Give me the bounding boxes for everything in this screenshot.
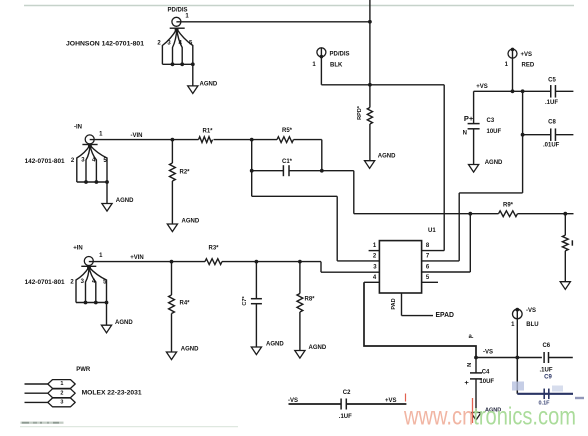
ground AGND C4	[471, 413, 481, 421]
connector P1 MOLEX pin 1	[48, 380, 75, 389]
svg-text:C5: C5	[548, 77, 556, 83]
-VS net label	[483, 349, 493, 355]
svg-text:R1*: R1*	[202, 128, 213, 134]
node PD/DIS junction	[368, 20, 372, 24]
svg-text:C3: C3	[487, 118, 495, 124]
-VS label C2	[288, 398, 298, 404]
op-amp U1 body	[379, 241, 421, 293]
wire J1 shield to ground	[192, 64, 194, 86]
ground AGND J4	[101, 325, 111, 333]
C3 value label	[487, 129, 502, 135]
resistor R9*	[499, 211, 518, 217]
ground AGND J1	[188, 86, 198, 94]
+IN label	[73, 246, 83, 252]
junction J1 shield b	[180, 62, 184, 66]
node A junction	[250, 138, 254, 142]
svg-text:a.: a.	[468, 334, 473, 340]
wire R5 corner down	[321, 140, 323, 171]
wire J3 shield to ground	[106, 182, 108, 204]
svg-text:N: N	[467, 363, 473, 367]
svg-text:.01UF: .01UF	[543, 142, 560, 148]
AGND label C4	[485, 408, 501, 414]
J2 pin 1 label	[312, 62, 316, 68]
U1 pin 5 number	[426, 275, 430, 281]
capacitor C8	[551, 128, 556, 141]
svg-text:AGND: AGND	[200, 81, 218, 87]
capacitor C9 wire	[517, 393, 573, 395]
junction J1 shield c	[191, 62, 195, 66]
U1 pin 1 stub	[369, 250, 380, 252]
svg-text:AGND: AGND	[266, 342, 284, 348]
svg-text:AGND: AGND	[116, 198, 134, 204]
connector J4 +IN (JOHNSON 142-0701-801)	[76, 257, 107, 303]
junction pin 6 tee	[468, 212, 472, 216]
AGND label R2	[182, 219, 200, 225]
svg-text:PD/DIS: PD/DIS	[330, 51, 350, 57]
junction -VS left	[474, 356, 478, 360]
junction J3 shield c	[105, 180, 109, 184]
R2* label	[180, 169, 191, 175]
J4 pin 1 label	[99, 253, 103, 259]
J1 pin 1 label	[185, 14, 189, 20]
C9 smudge b	[552, 386, 563, 392]
resistor R1*	[172, 137, 212, 143]
C5 value label	[545, 100, 558, 106]
wire +VS rail	[474, 90, 551, 92]
P1 pin 3 number	[60, 400, 63, 406]
wire pin 6 riser	[469, 214, 471, 272]
svg-text:P+: P+	[464, 114, 474, 123]
svg-text:R9*: R9*	[503, 203, 514, 209]
AGND label C7	[266, 342, 284, 348]
wire node A vertical	[251, 140, 253, 197]
J6 -VS label	[526, 308, 536, 314]
J3 pin 3 label	[81, 157, 85, 163]
P1 pin 1 number	[60, 381, 63, 387]
svg-text:R3*: R3*	[208, 246, 219, 252]
connector J6 -VS BLU	[513, 308, 523, 358]
svg-text:10UF: 10UF	[487, 129, 502, 135]
svg-text:142-0701-801: 142-0701-801	[25, 280, 66, 286]
C2 value label	[339, 414, 352, 420]
-VIN net label	[131, 133, 143, 139]
connector P1 MOLEX pin 2	[48, 389, 75, 398]
R9* label	[503, 203, 514, 209]
AGND label R8	[309, 345, 327, 351]
resistor R3*	[205, 259, 222, 265]
+VS net label	[476, 84, 488, 90]
svg-text:R2*: R2*	[180, 169, 191, 175]
C4 P+ mark	[464, 381, 471, 385]
C1* label	[282, 159, 293, 165]
capacitor C9 plates	[544, 389, 549, 400]
junction R load tee	[563, 212, 567, 216]
MOLEX part number label	[82, 390, 143, 396]
capacitor C7*	[251, 299, 262, 304]
resistor R2*	[170, 163, 176, 181]
AGND label C3	[485, 160, 503, 166]
U1 pin 8 number	[426, 243, 430, 249]
wire R1 right	[214, 139, 252, 141]
junction J3 shield a	[84, 180, 88, 184]
wire R load bottom	[564, 251, 566, 282]
C8 value label	[543, 142, 560, 148]
junction RPD top	[368, 83, 372, 87]
junction R8 top	[298, 260, 302, 264]
ground AGND C3	[469, 165, 479, 173]
svg-text:+VS: +VS	[521, 52, 533, 58]
wire PD/DIS pin1 horizontal	[176, 21, 370, 23]
wire C5 right	[556, 90, 574, 92]
J3 pin 2 label	[71, 158, 75, 164]
ground AGND RPD	[365, 161, 375, 169]
AGND label R4	[181, 347, 199, 353]
U1 reference label	[428, 228, 436, 234]
svg-text:C2: C2	[343, 390, 351, 396]
svg-text:RPD*: RPD*	[357, 105, 363, 120]
svg-text:U1: U1	[428, 228, 436, 234]
wire node A to pin2 horizontal	[252, 195, 338, 197]
svg-text:C9: C9	[544, 374, 552, 380]
watermark artifact red line b	[472, 398, 474, 423]
C9 smudge a	[512, 382, 524, 391]
svg-text:-VS: -VS	[288, 398, 298, 404]
R1* label	[202, 128, 213, 134]
J6 pin 1 label	[511, 322, 515, 328]
J2 label PD/DIS	[330, 51, 350, 57]
C3 label	[487, 118, 495, 124]
resistor R8*	[297, 294, 303, 313]
junction +VS b	[521, 89, 525, 93]
wire R5 to corner	[294, 139, 322, 141]
node -VIN junction	[171, 138, 175, 142]
svg-text:.1UF: .1UF	[339, 414, 352, 420]
svg-text:AGND: AGND	[485, 160, 503, 166]
J2 label BLK	[330, 62, 343, 68]
JOHNSON part number label	[66, 42, 145, 48]
connector J2 PD/DIS BLK	[317, 48, 326, 85]
wire C3 top	[473, 91, 475, 123]
AGND label J1	[200, 81, 218, 87]
junction feedback node	[320, 169, 324, 173]
ground AGND R4	[166, 352, 176, 360]
J3 part number label	[25, 159, 66, 165]
U1 pin 7 number	[426, 253, 430, 259]
svg-text:www.cntronics.com: www.cntronics.com	[403, 403, 576, 431]
svg-text:AGND: AGND	[309, 345, 327, 351]
wire C1 left	[252, 170, 284, 172]
J4 pin 5 label	[103, 280, 107, 286]
junction C8 tee	[521, 133, 525, 137]
border frame (decorative)	[24, 5, 574, 7]
resistor RPD*	[367, 85, 372, 161]
svg-text:AGND: AGND	[181, 347, 199, 353]
J5 pin 1 label	[505, 62, 509, 68]
connector J3 -IN (JOHNSON 142-0701-801)	[77, 135, 107, 182]
J4 pin 2 label	[70, 280, 74, 286]
wire feedback to output corner	[322, 170, 354, 172]
C4 value label	[479, 379, 494, 385]
svg-text:2: 2	[60, 390, 63, 396]
junction J1 shield a	[171, 62, 175, 66]
RPD* label	[357, 105, 363, 120]
svg-text:PAD: PAD	[391, 298, 397, 309]
C6 value label	[540, 368, 553, 374]
C9 value label	[539, 401, 551, 407]
junction J4 shield a	[84, 301, 88, 305]
wire -VIN	[90, 139, 173, 141]
wire C8 right	[556, 134, 574, 136]
C3 N label	[463, 131, 467, 137]
wire -VS rail	[476, 357, 542, 359]
R5* label	[282, 128, 293, 134]
J3 pin 1 label	[99, 132, 103, 138]
C7* label	[242, 296, 248, 306]
wire R4 bottom	[171, 314, 173, 353]
fine print (decorative)	[20, 422, 238, 427]
J5 RED label	[522, 62, 535, 68]
svg-text:N: N	[463, 131, 467, 137]
svg-text:C8: C8	[548, 120, 556, 126]
U1 PAD label	[391, 298, 397, 309]
connector P1 MOLEX pin 3	[48, 398, 75, 407]
svg-text:.1UF: .1UF	[545, 100, 558, 106]
wire to U1 pin 2	[337, 260, 379, 262]
wire R load top	[564, 214, 566, 236]
svg-text:+VS: +VS	[385, 398, 397, 404]
svg-text:R8*: R8*	[305, 297, 316, 303]
svg-text:C7*: C7*	[242, 296, 248, 306]
wire PD/DIS vertical from top edge	[369, 0, 371, 85]
resistor R load	[562, 235, 568, 251]
C4 label	[482, 369, 490, 375]
resistor R4*	[169, 295, 175, 314]
AGND label J3	[116, 198, 134, 204]
svg-text:1: 1	[60, 381, 63, 387]
C8 label	[548, 120, 556, 126]
svg-text:BLU: BLU	[526, 322, 538, 328]
connector P1 MOLEX pin 1 wire	[25, 383, 50, 385]
wire C7 top	[255, 262, 257, 299]
wire R9 right	[518, 213, 574, 215]
svg-text:+: +	[464, 381, 471, 385]
J1 pin 4 label	[179, 41, 183, 47]
svg-text:R4*: R4*	[180, 301, 191, 307]
wire pin 7 riser	[458, 193, 460, 261]
svg-text:142-0701-801: 142-0701-801	[25, 159, 66, 165]
junction +VS a	[511, 89, 515, 93]
+VS label C2	[385, 398, 397, 404]
J4 pin 3 label	[81, 279, 85, 285]
J3 pin 5 label	[103, 158, 107, 164]
svg-text:+VS: +VS	[476, 84, 488, 90]
wire C9 drop	[516, 358, 518, 394]
junction node A lower	[250, 169, 254, 173]
U1 pin 6 wire	[422, 271, 471, 273]
U1 pin 2 number	[373, 253, 377, 259]
R load label fragment	[572, 240, 574, 245]
PWR label	[76, 367, 91, 373]
wire +VIN	[89, 261, 172, 263]
J1 pin 5 label	[189, 41, 193, 47]
R4* label	[180, 301, 191, 307]
J4 pin 4 label	[92, 279, 96, 285]
svg-text:C6: C6	[542, 343, 550, 349]
connector J5 +VS RED	[508, 48, 517, 92]
wire to U1 pin 3	[321, 271, 379, 273]
junction J4 shield c	[105, 301, 109, 305]
C4 N label	[467, 363, 473, 367]
U1 pin 4 number	[373, 275, 377, 281]
ground AGND R8	[295, 351, 305, 359]
wire +VIN jog down	[320, 262, 322, 273]
junction C7 top	[255, 260, 259, 264]
watermark text	[403, 403, 576, 431]
svg-text:AGND: AGND	[182, 219, 200, 225]
connector J1 PD/DIS (JOHNSON 142-0701-801)	[162, 17, 192, 64]
ground AGND C7	[251, 347, 261, 355]
svg-text:MOLEX 22-23-2031: MOLEX 22-23-2031	[82, 390, 143, 396]
svg-text:AGND: AGND	[115, 320, 133, 326]
junction -VS BLU	[515, 356, 519, 360]
svg-text:BLK: BLK	[330, 62, 343, 68]
wire J4 shield to ground	[106, 303, 108, 326]
wire R3 right	[222, 261, 321, 263]
wire +VS to pin7 horizontal	[459, 192, 522, 194]
svg-text:C1*: C1*	[282, 159, 293, 165]
C3 P+ label	[464, 114, 474, 123]
EPAD label	[436, 312, 455, 319]
node +VIN junction	[170, 260, 174, 264]
U1 pin 1 number	[373, 243, 377, 249]
svg-text:PWR: PWR	[76, 367, 91, 373]
U1 EPAD stub	[402, 293, 434, 316]
connector J1 PD/DIS label	[167, 8, 187, 14]
wire R4 top	[171, 262, 173, 295]
U1 pin 7 wire	[422, 260, 460, 262]
ground AGND R2	[167, 224, 177, 232]
wire +VS branch down	[522, 91, 524, 193]
wire R8 bottom	[299, 312, 301, 351]
svg-text:-IN: -IN	[74, 124, 82, 130]
svg-text:-VS: -VS	[526, 308, 536, 314]
ground R load	[560, 282, 570, 290]
wire C1 right	[289, 170, 322, 172]
capacitor C1*	[283, 165, 289, 176]
svg-text:3: 3	[60, 400, 63, 406]
J5 +VS label	[521, 52, 533, 58]
J4 part number label	[25, 280, 66, 286]
J1 pin 2 label	[157, 41, 161, 47]
wire R2 bottom	[171, 181, 173, 224]
svg-text:R5*: R5*	[282, 128, 293, 134]
svg-text:EPAD: EPAD	[436, 312, 455, 319]
wire pin 8 riser	[443, 85, 445, 251]
capacitor C2	[341, 399, 346, 410]
R8* label	[305, 297, 316, 303]
svg-text:.1UF: .1UF	[540, 368, 553, 374]
+VIN net label	[130, 255, 144, 261]
svg-text:+VIN: +VIN	[130, 255, 144, 261]
wire feedback corner down	[353, 171, 355, 214]
junction J4 shield b	[94, 301, 98, 305]
capacitor C5	[551, 85, 556, 98]
C6 label	[542, 343, 550, 349]
wire pin2 vertical	[336, 196, 338, 261]
capacitor C3 (polarized)	[468, 124, 480, 165]
AGND label RPD	[378, 153, 396, 159]
C5 label	[548, 77, 556, 83]
wire C7 bottom	[255, 304, 257, 347]
svg-text:+IN: +IN	[73, 246, 83, 252]
C9 label	[544, 374, 552, 380]
-IN label	[74, 124, 82, 130]
connector P1 MOLEX pin 3 wire	[25, 401, 50, 403]
P1 pin 2 number	[60, 390, 63, 396]
wire C2 right	[346, 403, 406, 405]
wire +VIN to R3	[172, 261, 206, 263]
U1 pin 4 stub	[364, 281, 379, 283]
U1 pin 6 number	[426, 264, 430, 270]
J3 pin 4 label	[92, 157, 96, 163]
U1 pin 8 wire	[422, 250, 445, 252]
junction J3 shield b	[95, 180, 99, 184]
svg-text:AGND: AGND	[378, 153, 396, 159]
wire R8 top	[299, 262, 301, 294]
node a label	[468, 334, 473, 340]
svg-text:C4: C4	[482, 369, 490, 375]
connector P1 MOLEX pin 2 wire	[25, 392, 50, 394]
capacitor C6	[544, 352, 548, 363]
svg-text:RED: RED	[522, 62, 535, 68]
U1 pin 5 stub	[422, 281, 438, 283]
watermark artifact red line a	[405, 394, 407, 402]
wire R2 top	[171, 140, 173, 163]
wire U1 pin 4 to -VS	[364, 282, 476, 357]
wire PD/DIS net horizontal	[321, 84, 444, 86]
J6 BLU label	[526, 322, 538, 328]
U1 pin 3 number	[373, 264, 377, 270]
resistor R5*	[277, 137, 294, 143]
svg-text:-VS: -VS	[483, 349, 493, 355]
svg-text:-VIN: -VIN	[131, 133, 143, 139]
R3* label	[208, 246, 219, 252]
C2 label	[343, 390, 351, 396]
wire node A to R5	[252, 139, 277, 141]
wire C4 top	[475, 358, 477, 373]
wire C2 left	[289, 403, 342, 405]
ground AGND J3	[102, 204, 112, 212]
wire C6 right	[549, 357, 573, 359]
capacitor C4 (polarized)	[470, 373, 482, 413]
AGND label J4	[115, 320, 133, 326]
C9 smudge c	[575, 397, 584, 399]
J1 pin 3 label	[167, 41, 171, 47]
svg-text:JOHNSON 142-0701-801: JOHNSON 142-0701-801	[66, 42, 145, 48]
wire C8 left	[523, 134, 551, 136]
svg-text:10UF: 10UF	[479, 379, 494, 385]
wire output to R9	[354, 213, 499, 215]
